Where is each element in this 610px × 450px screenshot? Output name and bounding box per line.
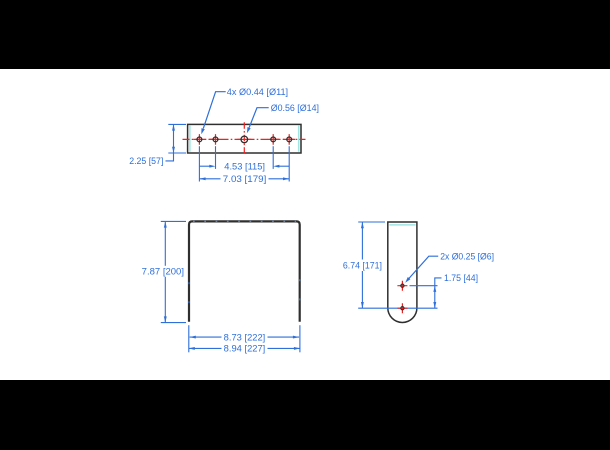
dim 8.73 line left segment [190, 336, 222, 338]
hole H1 (0.44in) [197, 137, 202, 142]
extension line below hole H1 [198, 146, 200, 181]
dim 6.74 dimension line lower [361, 271, 363, 308]
bend line dash right leg [299, 279, 301, 281]
hole H4 center mark [267, 134, 279, 145]
dim 1.75 dimension line [434, 286, 436, 309]
top view plate outline [188, 124, 301, 153]
svg-text:6.74 [171]: 6.74 [171] [343, 260, 382, 270]
bend tangent line top (cyan) [389, 224, 415, 226]
dim 6.74 arrow up [361, 222, 364, 228]
hole H1 center mark [193, 134, 205, 145]
leader arrowhead at side hole S1 [405, 277, 410, 283]
dim 8.73 left arrow [190, 336, 196, 339]
dim 7.03 left arrow (points left) [199, 177, 205, 180]
bend line dash right leg 2 [299, 298, 301, 300]
dim 6.74 dimension line upper [361, 222, 363, 260]
dim 7.87 arrow down [164, 316, 167, 322]
dim 7.87 dimension line upper [164, 221, 166, 265]
dim 6.74 + 1.75 shared bottom extension line [358, 307, 437, 309]
dim 8.94 line left segment [189, 347, 222, 349]
hole H4 (0.44in) [271, 137, 276, 142]
extension line below hole H5 [288, 146, 290, 181]
svg-text:8.94 [227]: 8.94 [227] [224, 344, 266, 354]
dim 6.74 extension line top [358, 221, 385, 223]
side hole S1 (0.25in) [401, 284, 404, 287]
svg-text:2x Ø0.25 [Ø6]: 2x Ø0.25 [Ø6] [440, 251, 494, 261]
extension line below hole H2 [215, 146, 217, 169]
hole H2 center mark [210, 134, 222, 145]
dim 1.75 arrow down [433, 302, 436, 308]
bend tangent line right (cyan) [298, 126, 300, 152]
dim 2.25 extension line top [168, 123, 186, 125]
dim 7.87 dimension line lower [164, 277, 166, 323]
dim 8.73 right arrow [293, 336, 299, 339]
dim 8.73 line right segment [268, 336, 300, 338]
center hole center mark [237, 138, 251, 140]
front bottom extension line right [299, 325, 301, 352]
svg-text:2.25 [57]: 2.25 [57] [129, 156, 163, 166]
leader arrowhead at hole H1 [201, 128, 205, 134]
dim 4.53 right tail [279, 165, 290, 167]
leader for center hole note [249, 108, 269, 128]
dim 2.25 arrow down [172, 147, 175, 153]
svg-text:Ø0.56 [Ø14]: Ø0.56 [Ø14] [271, 103, 319, 113]
extension line below hole H4 [272, 146, 274, 169]
dim 7.03 line left segment [199, 178, 220, 180]
dim 2.25 extension line bottom [168, 152, 186, 154]
dim 8.94 line right segment [268, 347, 301, 349]
dim 7.03 line right segment [269, 178, 290, 180]
svg-text:1.75 [44]: 1.75 [44] [444, 273, 478, 283]
dim 7.87 extension line top [161, 220, 186, 222]
white drawing sheet [0, 69, 610, 380]
dim 4.53 left tail [200, 165, 211, 167]
dim 7.87 extension line bottom [161, 322, 186, 324]
dim 8.94 left arrow [189, 347, 195, 350]
dim 6.74 arrow down [361, 302, 364, 308]
svg-text:7.03 [179]: 7.03 [179] [223, 174, 266, 184]
center hole (0.56in) [241, 136, 248, 143]
front bottom extension line left [188, 325, 190, 352]
dim 7.03 right arrow (points right) [283, 177, 289, 180]
hole H5 center mark [283, 134, 295, 145]
dim 1.75 text leader jog [435, 278, 442, 286]
bend lines on top edge (blue dashes) [193, 220, 296, 222]
side hole S2 center mark [397, 303, 407, 313]
side view outline with rounded bottom [388, 222, 417, 322]
svg-text:4.53 [115]: 4.53 [115] [224, 162, 265, 172]
svg-text:4x Ø0.44 [Ø11]: 4x Ø0.44 [Ø11] [227, 87, 288, 97]
leader for 2x holes note [409, 256, 438, 278]
dim 4.53 left arrow (points right) [209, 165, 215, 168]
hole H5 (0.44in) [287, 137, 292, 142]
bend line dash left leg 2 [188, 301, 190, 303]
svg-text:8.73 [222]: 8.73 [222] [224, 332, 266, 342]
horizontal centerline (red dash-dot) [183, 138, 306, 140]
dim 2.25 arrow up [172, 124, 175, 130]
side hole S2 (0.25in) [401, 307, 404, 310]
leader arrowhead at center hole [247, 127, 251, 133]
vertical centerline through center hole (red dash-dot) [243, 122, 245, 156]
side hole S1 center mark [397, 281, 407, 291]
hole H2 (0.44in) [213, 137, 218, 142]
dim 7.87 arrow up [164, 221, 167, 227]
dim 4.53 right arrow (points left) [273, 165, 279, 168]
dim 1.75 arrow up [433, 286, 436, 292]
dim 8.94 right arrow [294, 347, 300, 350]
svg-text:7.87 [200]: 7.87 [200] [142, 266, 184, 276]
front view U-channel outline [189, 221, 300, 321]
dim 2.25 text leader jog [166, 153, 174, 161]
dim 2.25 dimension line [173, 124, 175, 153]
leader for 4x holes note [203, 92, 225, 129]
bend tangent line left (cyan) [189, 126, 191, 152]
bend line dash left leg [188, 282, 190, 284]
dim 1.75 extension line upper [410, 285, 438, 287]
